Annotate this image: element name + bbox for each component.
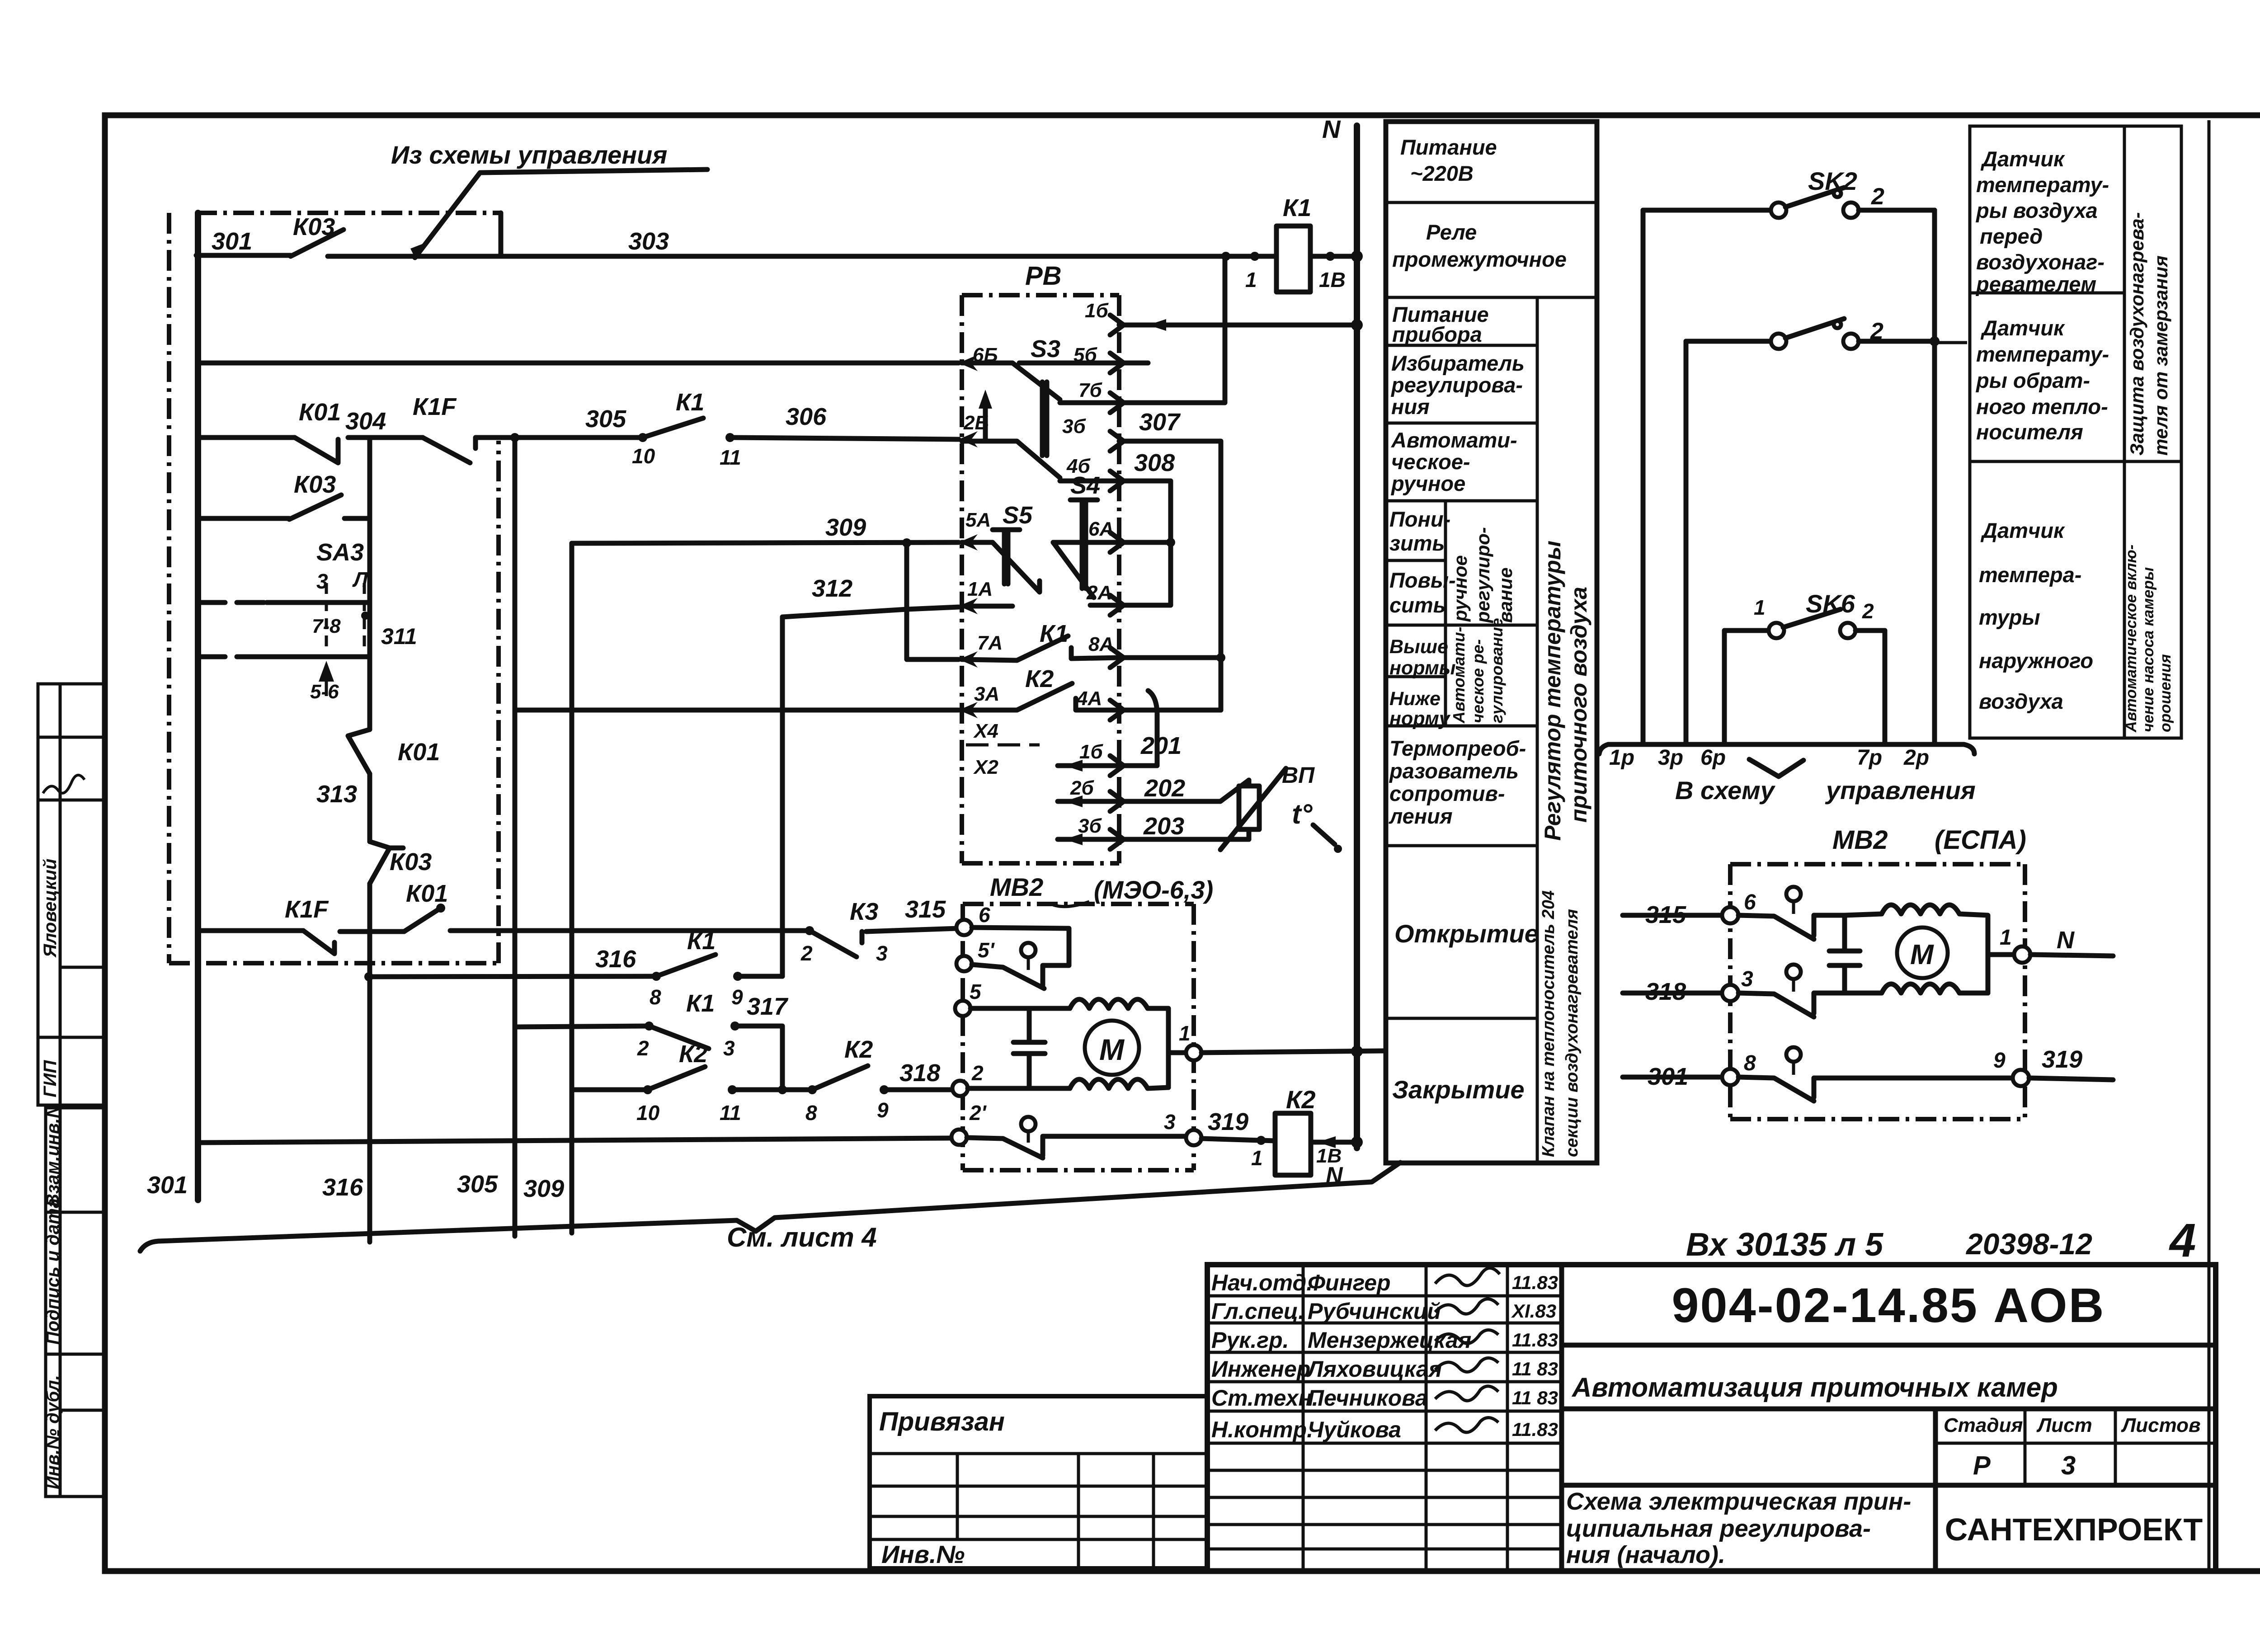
svg-text:(ЕСПА): (ЕСПА) bbox=[1935, 825, 2026, 855]
svg-text:11 83: 11 83 bbox=[1512, 1387, 1558, 1408]
svg-text:309: 309 bbox=[825, 514, 866, 541]
svg-text:313: 313 bbox=[316, 781, 357, 808]
svg-text:20398-12: 20398-12 bbox=[1965, 1227, 2092, 1261]
motor ESPA bbox=[1845, 905, 1988, 993]
svg-text:3р: 3р bbox=[1658, 746, 1683, 770]
svg-text:темпера-: темпера- bbox=[1979, 563, 2081, 587]
svg-text:303: 303 bbox=[628, 228, 669, 255]
svg-text:К2: К2 bbox=[1025, 665, 1054, 692]
svg-text:Лист: Лист bbox=[2036, 1414, 2092, 1436]
wire 303 bbox=[328, 254, 1276, 259]
wire 6B rail bbox=[198, 361, 959, 366]
capacitor MV2 bbox=[1013, 1008, 1045, 1088]
svg-text:4: 4 bbox=[2169, 1214, 2196, 1267]
left dash-dot boundary bbox=[167, 213, 171, 963]
svg-text:319: 319 bbox=[2042, 1046, 2082, 1073]
svg-text:316: 316 bbox=[322, 1174, 363, 1201]
svg-text:Автоматизация приточных каме: Автоматизация приточных камер bbox=[1571, 1372, 2058, 1403]
svg-text:11 83: 11 83 bbox=[1512, 1358, 1558, 1379]
svg-text:туры: туры bbox=[1979, 605, 2040, 629]
svg-text:301: 301 bbox=[212, 228, 252, 255]
svg-text:11: 11 bbox=[720, 1101, 741, 1125]
terminal 9 / wire 319 bbox=[2013, 1070, 2029, 1086]
wire K1F/K01/K3/315 row 2059 bbox=[198, 928, 303, 933]
wire 311 row 1453 bbox=[198, 654, 253, 659]
terminal 1 wire to N bbox=[1186, 1045, 1201, 1060]
svg-text:К2: К2 bbox=[1286, 1085, 1316, 1114]
contact row 8 bbox=[1786, 1047, 1801, 1062]
svg-text:Защита воздухонагрева-: Защита воздухонагрева- bbox=[2126, 212, 2147, 456]
svg-text:Повы-: Повы- bbox=[1389, 568, 1456, 592]
svg-text:Из схемы управления: Из схемы управления bbox=[391, 141, 667, 169]
svg-text:10: 10 bbox=[636, 1101, 660, 1125]
svg-text:6: 6 bbox=[979, 903, 990, 927]
svg-text:3А: 3А bbox=[974, 683, 999, 705]
svg-text:ческое-: ческое- bbox=[1391, 450, 1470, 474]
svg-text:2р: 2р bbox=[1903, 746, 1929, 770]
svg-text:орошения: орошения bbox=[2157, 654, 2174, 732]
svg-text:Термопреоб-: Термопреоб- bbox=[1389, 736, 1526, 760]
svg-text:зить: зить bbox=[1389, 531, 1445, 555]
svg-text:202: 202 bbox=[1144, 775, 1185, 802]
svg-text:К1F: К1F bbox=[285, 896, 329, 923]
svg-text:5': 5' bbox=[978, 938, 995, 962]
svg-text:9: 9 bbox=[877, 1098, 889, 1122]
svg-text:ления: ления bbox=[1389, 804, 1453, 828]
svg-text:309: 309 bbox=[523, 1175, 564, 1202]
wire 317 row 2270 bbox=[515, 1026, 649, 1027]
svg-text:Л: Л bbox=[352, 568, 368, 591]
wire 316 row 2160 bbox=[364, 972, 373, 981]
wire 3A long row 1571 bbox=[515, 708, 959, 713]
svg-text:SA3: SA3 bbox=[316, 539, 364, 566]
svg-text:Х2: Х2 bbox=[973, 756, 998, 778]
contact K03 (301) bbox=[196, 253, 291, 258]
dash-dot line 2131 bbox=[169, 961, 499, 965]
svg-text:8: 8 bbox=[1744, 1051, 1756, 1075]
title block signature rows text bbox=[1211, 1270, 1558, 1442]
wire 308 net bbox=[1119, 481, 1171, 605]
wire 318 row 2411 bbox=[572, 1087, 648, 1092]
wire 307 net bbox=[1119, 441, 1221, 710]
right sensor description boxes bbox=[1937, 126, 2181, 738]
svg-text:3: 3 bbox=[723, 1036, 735, 1060]
bottom collector line bbox=[140, 1163, 1400, 1251]
contact row 3 bbox=[1786, 965, 1801, 979]
contact K1F row 2059 bbox=[303, 931, 334, 954]
svg-text:319: 319 bbox=[1208, 1108, 1248, 1135]
svg-text:МВ2: МВ2 bbox=[1832, 825, 1888, 855]
svg-text:Рук.гр.: Рук.гр. bbox=[1211, 1327, 1289, 1353]
terminal 1 to N bbox=[2014, 946, 2030, 963]
svg-text:Автоматическое вклю-: Автоматическое вклю- bbox=[2123, 545, 2140, 733]
svg-text:8А: 8А bbox=[1088, 633, 1114, 655]
svg-text:3: 3 bbox=[2061, 1451, 2076, 1480]
left bus wire bbox=[195, 213, 201, 1200]
svg-text:ного тепло-: ного тепло- bbox=[1976, 395, 2108, 419]
wire 312 row bbox=[782, 607, 959, 617]
svg-text:S5: S5 bbox=[1003, 502, 1033, 529]
svg-text:К03: К03 bbox=[390, 848, 432, 875]
svg-text:2: 2 bbox=[1862, 599, 1874, 623]
svg-text:К01: К01 bbox=[398, 739, 440, 766]
svg-text:регулирова-: регулирова- bbox=[1390, 373, 1523, 397]
svg-text:6: 6 bbox=[1744, 890, 1756, 914]
svg-text:1б: 1б bbox=[1085, 300, 1109, 322]
svg-text:К01: К01 bbox=[406, 880, 448, 907]
limit contact 2' bbox=[951, 1130, 967, 1145]
svg-text:3: 3 bbox=[1741, 967, 1753, 991]
svg-text:1А: 1А bbox=[967, 578, 993, 600]
svg-text:4А: 4А bbox=[1076, 687, 1102, 710]
svg-text:К3: К3 bbox=[850, 898, 878, 925]
svg-text:ВП: ВП bbox=[1282, 762, 1315, 788]
terminal 3 / wire 319 bbox=[1186, 1130, 1201, 1145]
wire 7b to 303 bbox=[1119, 256, 1225, 403]
svg-text:Привязан: Привязан bbox=[879, 1407, 1005, 1436]
svg-text:307: 307 bbox=[1139, 409, 1181, 436]
svg-text:К2: К2 bbox=[679, 1040, 707, 1068]
svg-text:Стадия: Стадия bbox=[1944, 1414, 2023, 1436]
wire 301 dash-dot top bbox=[196, 211, 501, 215]
wire 201 vertical stub bbox=[1119, 691, 1157, 766]
svg-text:7А: 7А bbox=[977, 632, 1003, 654]
privyazan table bbox=[870, 1396, 1207, 1568]
svg-text:t°: t° bbox=[1292, 799, 1313, 830]
svg-text:Избиратель: Избиратель bbox=[1391, 351, 1525, 375]
contact K03 row 1147 bbox=[198, 516, 289, 521]
svg-text:норму: норму bbox=[1389, 708, 1451, 730]
svg-text:К03: К03 bbox=[294, 471, 336, 498]
svg-text:7-8: 7-8 bbox=[312, 615, 341, 637]
svg-text:Чуйкова: Чуйкова bbox=[1308, 1417, 1401, 1442]
contact K1 (305-306) pins 10 11 bbox=[638, 433, 647, 442]
svg-text:ГИП: ГИП bbox=[40, 1060, 60, 1097]
svg-text:316: 316 bbox=[595, 946, 636, 973]
RV right pin 1b wire to N bbox=[1119, 323, 1357, 328]
svg-text:САНТЕХПРОЕКТ: САНТЕХПРОЕКТ bbox=[1945, 1512, 2203, 1547]
svg-text:Закрытие: Закрытие bbox=[1392, 1075, 1525, 1104]
X2 pin wires 201 202 203 bbox=[1058, 763, 1119, 768]
contact K3 row 2059 pins 2 3 bbox=[805, 926, 814, 935]
svg-text:311: 311 bbox=[381, 624, 417, 649]
contact K01 row 2059 bbox=[404, 908, 441, 932]
svg-text:Регулятор температуры: Регулятор температуры bbox=[1540, 541, 1565, 841]
svg-text:сить: сить bbox=[1389, 593, 1446, 617]
svg-text:ципиальная регулирова-: ципиальная регулирова- bbox=[1566, 1515, 1871, 1542]
svg-text:1: 1 bbox=[1251, 1146, 1263, 1170]
svg-text:904-02-14.85 АОВ: 904-02-14.85 АОВ bbox=[1671, 1278, 2105, 1332]
left margin stamp column lower bbox=[46, 1108, 106, 1497]
svg-text:К03: К03 bbox=[293, 213, 335, 240]
svg-text:3б: 3б bbox=[1078, 815, 1102, 837]
wire 309 row 1202 bbox=[572, 542, 959, 543]
svg-text:Х4: Х4 bbox=[973, 720, 998, 742]
svg-text:11.83: 11.83 bbox=[1512, 1272, 1558, 1293]
svg-text:312: 312 bbox=[812, 575, 852, 602]
svg-text:наружного: наружного bbox=[1979, 649, 2093, 673]
svg-text:Гл.спец.: Гл.спец. bbox=[1211, 1299, 1304, 1324]
vertical 818 branch bbox=[367, 438, 372, 730]
svg-text:Р: Р bbox=[1973, 1451, 1991, 1480]
svg-text:305: 305 bbox=[457, 1171, 498, 1198]
svg-text:305: 305 bbox=[585, 405, 626, 433]
svg-text:304: 304 bbox=[345, 408, 386, 435]
svg-text:Листов: Листов bbox=[2121, 1414, 2201, 1436]
svg-text:7б: 7б bbox=[1078, 379, 1102, 401]
RV pin labels bbox=[963, 300, 1114, 778]
svg-text:8: 8 bbox=[650, 985, 661, 1009]
svg-text:воздухонаг-: воздухонаг- bbox=[1976, 250, 2105, 274]
svg-text:11.83: 11.83 bbox=[1512, 1329, 1558, 1351]
svg-text:11: 11 bbox=[720, 446, 741, 469]
svg-text:ческое ре-: ческое ре- bbox=[1469, 639, 1487, 723]
svg-text:Реле: Реле bbox=[1426, 220, 1477, 244]
svg-text:Инв.№ дубл.: Инв.№ дубл. bbox=[43, 1375, 63, 1489]
svg-text:вание: вание bbox=[1495, 567, 1516, 623]
terminal row line bbox=[1608, 744, 1974, 754]
svg-text:сопротив-: сопротив- bbox=[1389, 781, 1505, 805]
svg-text:Фингер: Фингер bbox=[1308, 1270, 1391, 1295]
RV pin arrows left edge bbox=[959, 355, 978, 718]
svg-text:2: 2 bbox=[800, 941, 813, 965]
svg-text:Датчик: Датчик bbox=[1980, 316, 2065, 340]
svg-text:301: 301 bbox=[147, 1172, 188, 1199]
svg-text:315: 315 bbox=[905, 896, 946, 923]
svg-text:S4: S4 bbox=[1070, 472, 1100, 499]
svg-text:Выше: Выше bbox=[1389, 636, 1448, 658]
svg-text:11.83: 11.83 bbox=[1512, 1419, 1558, 1440]
svg-text:перед: перед bbox=[1980, 224, 2043, 248]
svg-text:(МЭО-6,3): (МЭО-6,3) bbox=[1094, 875, 1213, 904]
svg-text:~220В: ~220В bbox=[1410, 161, 1474, 185]
svg-text:теля от замерзания: теля от замерзания bbox=[2150, 255, 2171, 456]
svg-text:Инженер: Инженер bbox=[1211, 1356, 1310, 1382]
svg-text:1: 1 bbox=[2000, 926, 2012, 950]
svg-text:приточного воздуха: приточного воздуха bbox=[1566, 587, 1591, 823]
wire riser to 303 bbox=[499, 213, 504, 256]
svg-text:К1: К1 bbox=[676, 389, 704, 416]
svg-text:XI.83: XI.83 bbox=[1511, 1300, 1556, 1322]
svg-text:306: 306 bbox=[786, 403, 827, 430]
svg-text:Ст.техн.: Ст.техн. bbox=[1211, 1385, 1318, 1411]
svg-text:разователь: разователь bbox=[1389, 759, 1519, 783]
svg-text:ручное: ручное bbox=[1390, 471, 1465, 495]
contact K1 (316) pins 8 9 bbox=[652, 972, 661, 981]
title block table bbox=[1207, 1265, 2216, 1571]
svg-text:К1: К1 bbox=[1283, 194, 1311, 221]
svg-text:воздуха: воздуха bbox=[1979, 689, 2063, 713]
svg-text:РВ: РВ bbox=[1025, 261, 1062, 291]
svg-text:Взам.инв.N: Взам.инв.N bbox=[43, 1105, 63, 1207]
svg-text:3: 3 bbox=[876, 941, 888, 965]
RV pin chevrons right edge bbox=[1110, 315, 1124, 849]
svg-text:управления: управления bbox=[1825, 776, 1976, 805]
terminal 2 bbox=[952, 1081, 968, 1096]
svg-text:Н.контр.: Н.контр. bbox=[1211, 1417, 1313, 1442]
wire leader arrow bbox=[415, 169, 707, 258]
svg-text:Схема электрическая прин-: Схема электрическая прин- bbox=[1566, 1488, 1911, 1515]
svg-text:1б: 1б bbox=[1079, 741, 1103, 763]
svg-text:В схему: В схему bbox=[1675, 776, 1776, 805]
svg-text:ручное: ручное bbox=[1450, 555, 1471, 622]
wire 5b stub bbox=[1119, 361, 1148, 366]
svg-text:2: 2 bbox=[971, 1061, 984, 1085]
svg-text:2б: 2б bbox=[1070, 777, 1094, 799]
svg-text:5А: 5А bbox=[965, 509, 991, 531]
svg-text:2: 2 bbox=[637, 1036, 649, 1060]
limit contact 5' bbox=[972, 927, 1069, 985]
wire verticals to terminals bbox=[1641, 210, 1646, 744]
contact K1F (304) bbox=[423, 438, 470, 463]
wire N bus bbox=[1354, 126, 1360, 1148]
svg-text:Ляховицкая: Ляховицкая bbox=[1306, 1356, 1442, 1382]
svg-text:Автомати-: Автомати- bbox=[1391, 428, 1517, 452]
svg-text:нормы: нормы bbox=[1389, 657, 1455, 679]
svg-text:Рубчинский: Рубчинский bbox=[1308, 1299, 1441, 1324]
svg-text:промежуточное: промежуточное bbox=[1392, 247, 1567, 271]
svg-text:9: 9 bbox=[731, 985, 743, 1009]
up arrow at 2B bbox=[983, 402, 988, 441]
svg-text:Датчик: Датчик bbox=[1980, 518, 2065, 542]
signatures squiggles bbox=[1435, 1268, 1500, 1432]
svg-text:Датчик: Датчик bbox=[1980, 147, 2065, 171]
svg-text:308: 308 bbox=[1134, 449, 1175, 476]
svg-text:МВ2: МВ2 bbox=[990, 873, 1043, 901]
svg-text:температу-: температу- bbox=[1976, 342, 2109, 366]
svg-text:ры обрат-: ры обрат- bbox=[1975, 368, 2090, 392]
svg-text:См. лист 4: См. лист 4 bbox=[727, 1222, 877, 1252]
svg-text:носителя: носителя bbox=[1976, 420, 2083, 444]
svg-text:Яловецкий: Яловецкий bbox=[40, 859, 60, 958]
svg-text:чение насоса камеры: чение насоса камеры bbox=[2140, 567, 2157, 732]
svg-text:1: 1 bbox=[1754, 596, 1766, 619]
svg-text:Пони-: Пони- bbox=[1389, 507, 1450, 531]
svg-text:Печникова: Печникова bbox=[1308, 1385, 1428, 1411]
svg-text:318: 318 bbox=[899, 1059, 940, 1087]
capacitor ESPA bbox=[1829, 915, 1860, 993]
svg-text:317: 317 bbox=[747, 993, 789, 1020]
svg-text:К1F: К1F bbox=[413, 393, 457, 420]
svg-text:ния: ния bbox=[1391, 395, 1430, 419]
left margin stamp column upper bbox=[38, 684, 106, 1105]
svg-text:Автомати-: Автомати- bbox=[1450, 627, 1468, 724]
svg-text:Открытие: Открытие bbox=[1394, 919, 1539, 948]
svg-text:ры воздуха: ры воздуха bbox=[1975, 198, 2098, 222]
svg-text:К1: К1 bbox=[687, 927, 716, 955]
svg-text:ния (начало).: ния (начало). bbox=[1566, 1541, 1725, 1568]
svg-text:2: 2 bbox=[1871, 184, 1884, 210]
svg-text:N: N bbox=[1326, 1163, 1343, 1189]
svg-text:Инв.№: Инв.№ bbox=[881, 1540, 965, 1568]
svg-text:S3: S3 bbox=[1031, 335, 1060, 362]
svg-text:1В: 1В bbox=[1319, 268, 1346, 292]
svg-text:Клапан на теплоноситель 204: Клапан на теплоноситель 204 bbox=[1539, 890, 1558, 1157]
svg-text:температу-: температу- bbox=[1976, 173, 2109, 197]
svg-text:К2: К2 bbox=[844, 1036, 873, 1063]
svg-text:6р: 6р bbox=[1700, 746, 1726, 770]
svg-text:К1: К1 bbox=[686, 990, 715, 1017]
vertical 2006 with 7A stub bbox=[907, 543, 959, 659]
svg-text:ревателем: ревателем bbox=[1975, 272, 2096, 296]
svg-text:Подпись и дата: Подпись и дата bbox=[43, 1198, 63, 1345]
svg-text:Питание: Питание bbox=[1400, 135, 1497, 159]
svg-text:1: 1 bbox=[1245, 268, 1257, 292]
svg-text:3: 3 bbox=[1164, 1110, 1176, 1134]
svg-text:прибора: прибора bbox=[1392, 322, 1482, 346]
svg-text:7р: 7р bbox=[1857, 746, 1882, 770]
svg-text:гулирование: гулирование bbox=[1488, 618, 1506, 723]
svg-text:секции воздухонагревателя: секции воздухонагревателя bbox=[1563, 909, 1582, 1157]
svg-text:1: 1 bbox=[1179, 1021, 1191, 1045]
wire 2' row 2520 bbox=[201, 1138, 951, 1143]
middle legend table bbox=[1386, 122, 1597, 1163]
contact K01 on vertical 313 bbox=[348, 730, 370, 774]
contact row 6 bbox=[1786, 887, 1801, 901]
svg-text:N: N bbox=[1322, 115, 1341, 143]
svg-text:201: 201 bbox=[1140, 732, 1182, 759]
svg-text:9: 9 bbox=[1993, 1049, 2006, 1073]
svg-text:К01: К01 bbox=[299, 399, 341, 426]
svg-text:2': 2' bbox=[969, 1101, 987, 1125]
verticals 1139 1265 bbox=[513, 438, 518, 1236]
svg-text:203: 203 bbox=[1143, 813, 1184, 840]
wire 304/305/306 rail bbox=[198, 435, 295, 440]
thermal resistor VP t bbox=[1119, 780, 1249, 801]
svg-text:5: 5 bbox=[970, 980, 982, 1003]
svg-text:8: 8 bbox=[805, 1101, 817, 1125]
svg-text:Нач.отд.: Нач.отд. bbox=[1211, 1270, 1313, 1295]
svg-text:6А: 6А bbox=[1088, 518, 1114, 540]
svg-text:М: М bbox=[1099, 1033, 1125, 1066]
svg-text:регулиро-: регулиро- bbox=[1472, 527, 1493, 623]
vertical 1731 bbox=[780, 617, 785, 976]
svg-text:1р: 1р bbox=[1609, 746, 1634, 770]
wire stub 1333 bbox=[198, 600, 267, 605]
motor MV2 bbox=[1070, 999, 1168, 1087]
contact K01 (304) bbox=[295, 438, 338, 463]
terminal 6 bbox=[956, 920, 972, 935]
contact K03 NC on vertical 313 bbox=[370, 842, 403, 884]
svg-text:10: 10 bbox=[632, 444, 655, 468]
svg-text:N: N bbox=[2057, 927, 2075, 954]
svg-text:М: М bbox=[1910, 939, 1934, 970]
svg-text:Мензержецкая: Мензержецкая bbox=[1308, 1327, 1471, 1353]
svg-text:Ниже: Ниже bbox=[1389, 688, 1441, 710]
svg-text:3б: 3б bbox=[1062, 415, 1086, 438]
svg-text:5-6: 5-6 bbox=[310, 681, 339, 703]
terminal 5 bbox=[955, 1001, 970, 1016]
svg-text:Вх 30135 л 5: Вх 30135 л 5 bbox=[1686, 1227, 1883, 1263]
